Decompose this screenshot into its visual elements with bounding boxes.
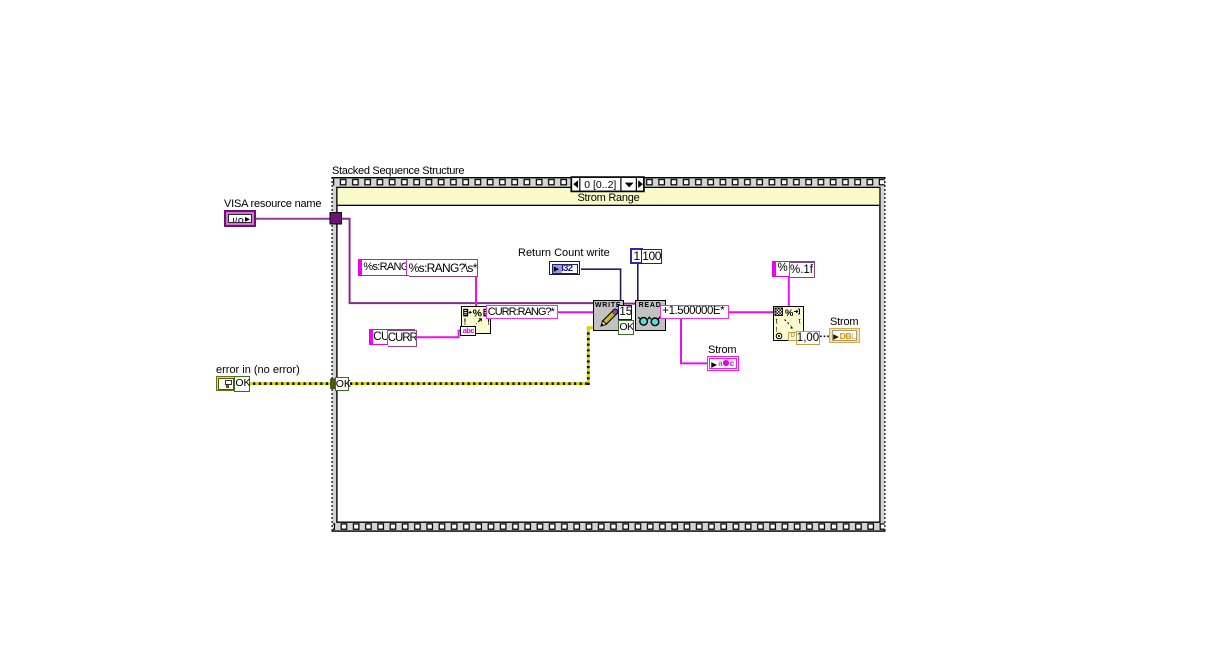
sequence structure left dashed outer edge xyxy=(331,177,333,532)
label: error in (no error) xyxy=(216,365,300,376)
svg-text:%: % xyxy=(472,308,482,320)
label: Strom (string indicator) xyxy=(708,345,736,356)
label: Return Count write xyxy=(518,248,610,259)
sequence structure top outer black line xyxy=(332,177,886,178)
wire: error in cluster to tunnel (yellow/black dashed) xyxy=(248,382,334,385)
string constant pair %s:RANG / %s:RANG?\s* xyxy=(358,259,477,276)
Strom DBL indicator xyxy=(829,328,860,344)
sequence structure bottom film strip xyxy=(333,523,885,530)
label: VISA resource name xyxy=(224,199,321,210)
wire: 1100 constant down to Read node (navy) xyxy=(637,264,639,301)
label: Stacked Sequence Structure xyxy=(332,166,464,177)
Scan From String node U2 xyxy=(773,306,804,341)
wire: scan output to Strom DBL indicator (black dotted) xyxy=(820,335,830,337)
D output sub-box xyxy=(788,332,796,340)
error in cluster constant xyxy=(216,376,249,391)
sequence structure right border gray strip xyxy=(880,178,884,531)
VISA Write node xyxy=(593,300,624,331)
wire: VISA Write to VISA Read (dark purple) xyxy=(623,303,635,305)
string constant +1.500000E* xyxy=(660,305,729,319)
wire: tunnel down-right to VISA Write (dark purple) xyxy=(341,219,593,303)
wire: +1.500000E* to Scan From String (pink) xyxy=(729,311,774,313)
svg-text:t: t xyxy=(799,317,802,326)
VISA resource name control (I/O) xyxy=(224,210,256,227)
svg-text:%: % xyxy=(785,308,794,319)
numeric constant pair 1 / 100 xyxy=(630,248,643,264)
wire: %.1f constant down to Scan From String (pink) xyxy=(788,277,790,307)
numeric constant 1,00 xyxy=(796,331,820,346)
VISA Read node xyxy=(635,300,666,331)
abc sub-box of format node xyxy=(460,326,476,336)
wire: CURR:RANG?* label to VISA Write (pink) xyxy=(558,311,593,313)
label: Strom (DBL indicator) xyxy=(830,317,858,328)
sequence structure left border gray strip xyxy=(333,178,337,531)
error OK tunnel box on border xyxy=(335,377,350,391)
wire: Return Count write indicator to Write node (navy) xyxy=(581,269,621,305)
svg-text:0 [0..2]: 0 [0..2] xyxy=(584,179,616,191)
tunnel: VISA resource (dark purple square on left border) xyxy=(330,213,342,224)
numeric 15 box xyxy=(618,305,632,320)
format string constant pair % / %.1f xyxy=(772,261,815,276)
wire: read string down to Strom string indicator (pink) xyxy=(681,319,708,364)
Format Into String node U1 xyxy=(461,306,492,334)
frame label bar (Strom Range) yellow xyxy=(338,188,880,205)
frame label bar bottom black line xyxy=(338,205,880,206)
svg-text:!: ! xyxy=(776,325,778,334)
pencil icon xyxy=(594,301,623,330)
Return Count write I32 indicator xyxy=(549,261,580,276)
sequence structure inner black frame xyxy=(337,187,880,522)
Strom string indicator xyxy=(707,356,739,371)
glasses icon xyxy=(636,301,665,330)
OK box under write xyxy=(618,320,634,335)
sequence structure top film strip xyxy=(333,178,885,186)
wire: format string constant down into Format node (pink) xyxy=(475,277,477,308)
tunnel: error (olive rect on left border) xyxy=(331,379,336,389)
wire: VISA resource name to tunnel (purple) xyxy=(256,218,332,220)
sequence structure bottom outer black line xyxy=(332,530,886,531)
wire: error tunnel to VISA Write (yellow/black dashed) xyxy=(350,382,590,385)
sequence structure right dashed outer edge xyxy=(884,177,886,532)
wire: CURR constant to Format node abc input (pink) xyxy=(416,331,462,338)
string label CURR:RANG?* xyxy=(486,305,559,320)
label: Strom Range (frame title) xyxy=(338,193,879,204)
string constant pair CU / CURR xyxy=(369,329,416,345)
sequence selector box xyxy=(571,177,644,191)
